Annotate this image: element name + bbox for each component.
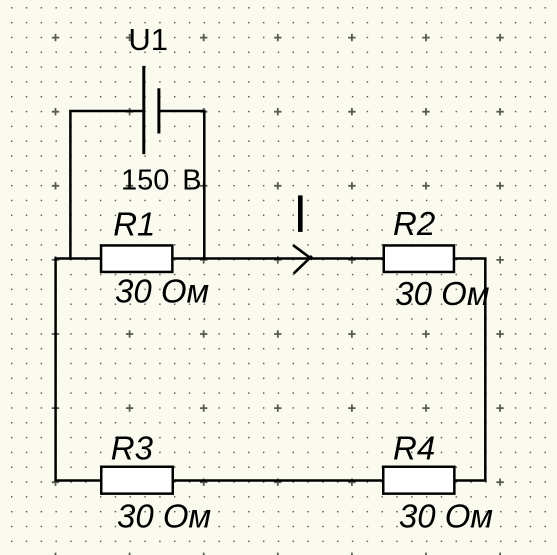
svg-text:30 Ом: 30 Ом xyxy=(117,497,211,534)
battery U1 long plate xyxy=(142,66,145,154)
resistor R4 xyxy=(383,467,454,494)
wire battery right leg xyxy=(159,111,204,260)
svg-text:В: В xyxy=(182,165,201,197)
svg-text:U1: U1 xyxy=(128,22,168,57)
svg-text:30 Ом: 30 Ом xyxy=(395,275,489,312)
svg-text:R3: R3 xyxy=(111,430,154,467)
svg-text:R4: R4 xyxy=(393,430,435,467)
wire main horizontal (top) xyxy=(54,257,486,260)
svg-text:150: 150 xyxy=(121,165,169,197)
wire left vertical xyxy=(54,259,57,481)
wire battery left leg xyxy=(70,111,142,260)
resistor R2 xyxy=(384,245,454,272)
svg-text:R2: R2 xyxy=(393,205,435,242)
svg-text:30 Ом: 30 Ом xyxy=(399,498,493,535)
wire bottom horizontal xyxy=(54,479,486,482)
battery U1 short plate xyxy=(157,88,160,133)
current arrow xyxy=(293,245,312,273)
svg-text:R1: R1 xyxy=(113,205,155,242)
resistor R3 xyxy=(101,467,173,494)
svg-text:30 Ом: 30 Ом xyxy=(115,273,209,310)
resistor R1 xyxy=(101,245,172,272)
label I xyxy=(298,195,303,232)
wire right vertical xyxy=(484,259,487,481)
